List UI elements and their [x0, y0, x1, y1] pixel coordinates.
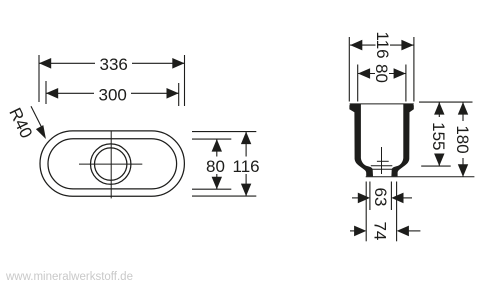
svg-text:80: 80: [206, 157, 225, 176]
svg-text:74: 74: [370, 221, 389, 240]
svg-text:300: 300: [99, 86, 127, 105]
svg-text:www.mineralwerkstoff.de: www.mineralwerkstoff.de: [5, 271, 133, 283]
svg-text:116: 116: [373, 32, 392, 59]
svg-text:180: 180: [453, 125, 472, 153]
svg-text:336: 336: [100, 55, 128, 74]
svg-text:80: 80: [372, 64, 391, 83]
svg-text:155: 155: [429, 122, 448, 150]
svg-text:116: 116: [233, 157, 260, 176]
svg-text:63: 63: [371, 188, 390, 207]
